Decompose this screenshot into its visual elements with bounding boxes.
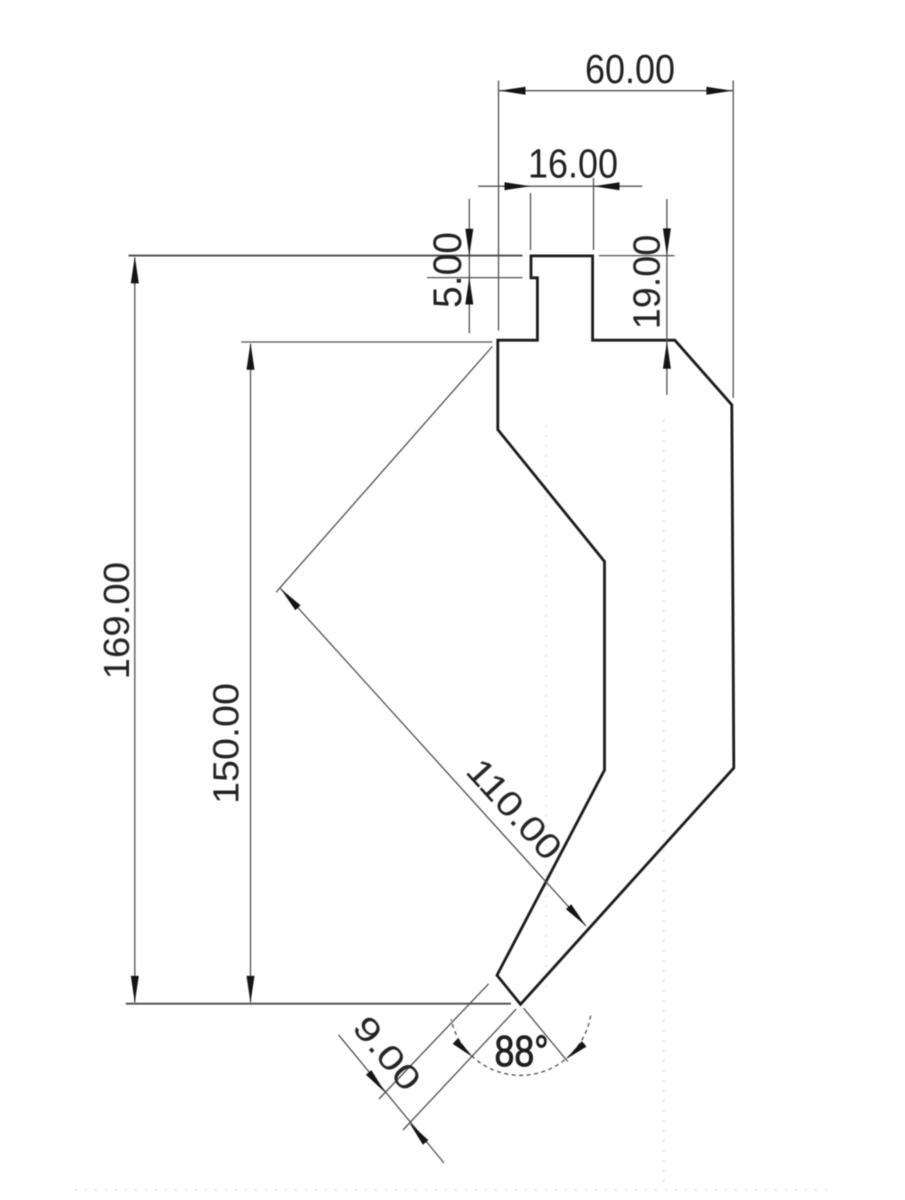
dim 5.00 line [468, 199, 470, 334]
dim 169.00 arrow top [131, 256, 139, 283]
shared ext line punch tip (169.00 / 150.00) [126, 1003, 511, 1005]
dim 60.00 text [585, 46, 675, 92]
dim 150.00 arrow bottom [247, 976, 255, 1003]
dim 19.00 arrow bottom [663, 342, 671, 369]
angle 88 arc arrow right [566, 1041, 587, 1059]
dim 110.00 line [281, 589, 587, 927]
dim 19.00 line [666, 199, 668, 395]
dim 150.00 line [250, 344, 252, 1002]
dim 9.00 ext line A from flank top [379, 984, 489, 1099]
dim 5.00 text [426, 232, 470, 308]
dim 16.00 arrow right [594, 182, 620, 190]
angle 88 ray along tip flank [524, 1008, 568, 1061]
dim 110.00 ext line from shoulder corner [276, 347, 492, 593]
svg-text:60.00: 60.00 [585, 46, 675, 92]
dim 9.00 line [339, 1035, 445, 1163]
dim 60.00 arrow left [500, 87, 526, 95]
svg-text:5.00: 5.00 [426, 232, 470, 308]
dim 60.00 arrow right [706, 87, 732, 95]
dim 150.00 arrow top [247, 343, 255, 370]
dim 60.00 ext line left [498, 81, 500, 331]
centerline dotted x=546 [545, 425, 547, 990]
angle 88 text [495, 1027, 549, 1076]
dim 5.00 ext line bottom [427, 277, 523, 279]
dim 110.00 arrow end [566, 904, 586, 926]
svg-text:150.00: 150.00 [205, 683, 246, 804]
dim 60.00 ext line right [732, 81, 734, 399]
dim 169.00 line [134, 258, 136, 1003]
dim 19.00 ext line top [599, 255, 675, 257]
dim 5.00 arrow top [465, 229, 473, 256]
dim 60.00 line [499, 90, 734, 92]
dim 150.00 ext line top [241, 341, 492, 343]
dim 16.00 text [528, 141, 618, 187]
dim 9.00 ext line B from tip (also 88 deg ray) [403, 1009, 516, 1130]
dim 16.00 ext line left [530, 193, 532, 250]
angle 88 arc arrow left [453, 1039, 473, 1058]
dim 19.00 arrow top [663, 228, 671, 255]
svg-text:88°: 88° [495, 1027, 549, 1076]
dim 5.00 arrow bottom [465, 278, 473, 305]
svg-text:16.00: 16.00 [528, 141, 618, 187]
dim 19.00 text [627, 235, 669, 330]
sheet border dotted bottom [75, 1189, 835, 1191]
svg-text:19.00: 19.00 [627, 235, 669, 330]
dim 169.00 text [96, 562, 137, 680]
dim 9.00 text [345, 1009, 428, 1099]
dim 16.00 arrow left [505, 182, 531, 190]
dim 9.00 arrow lower [409, 1122, 428, 1144]
dim 9.00 arrow upper [366, 1070, 385, 1092]
dim 16.00 line [478, 185, 642, 187]
dim 110.00 arrow start [281, 589, 301, 611]
dim 110.00 text [458, 751, 569, 868]
punch profile outline [497, 256, 734, 1004]
angle 88 arc [451, 1016, 590, 1076]
dim 169.00 arrow bottom [131, 976, 139, 1003]
shared ext line tang top (169.00 / 5.00) [129, 255, 523, 257]
dim 16.00 ext line right [593, 178, 595, 250]
centerline dotted x=664 [663, 420, 665, 1185]
dim 150.00 text [205, 683, 246, 804]
svg-text:169.00: 169.00 [96, 562, 137, 680]
